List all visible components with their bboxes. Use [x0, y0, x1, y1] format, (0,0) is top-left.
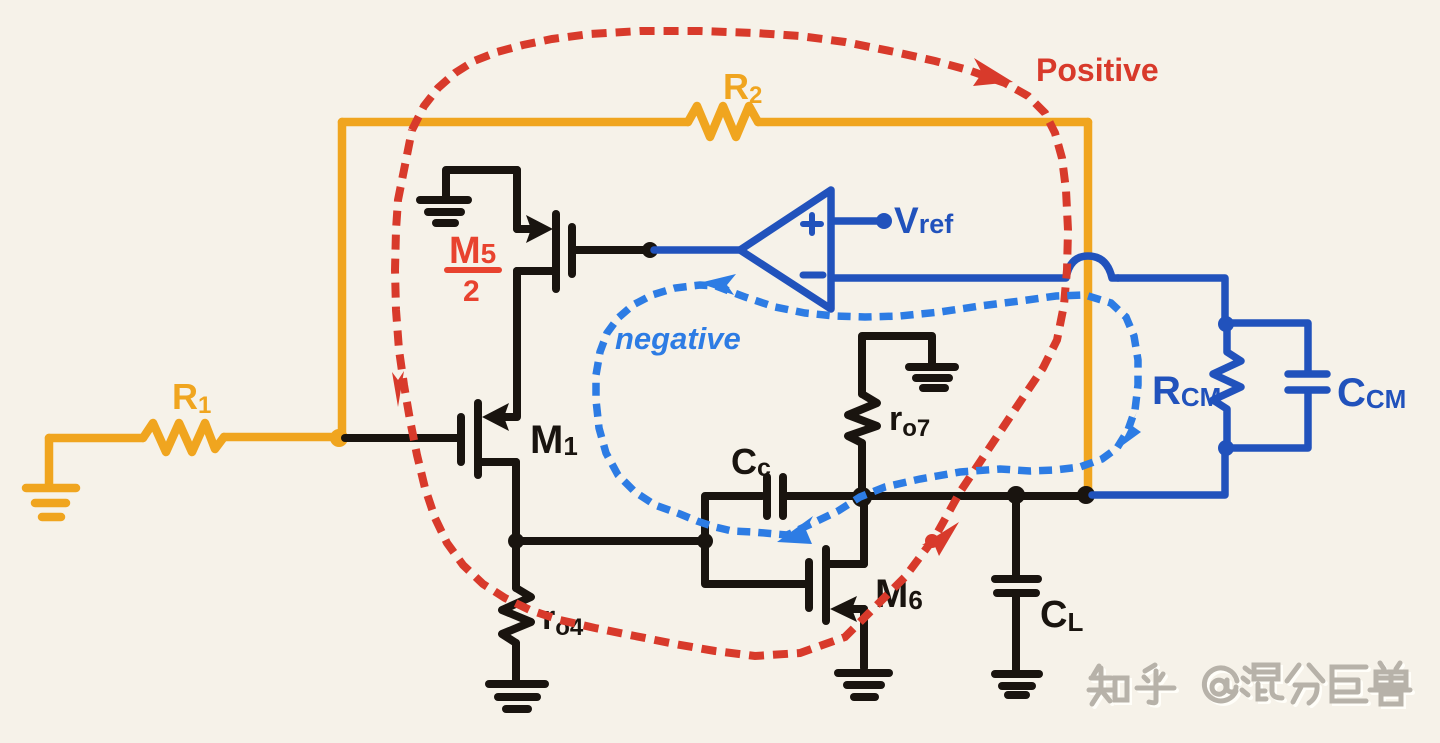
Ccm bottom plate — [1288, 386, 1327, 394]
M1 drain arm — [505, 413, 516, 421]
resistor R1 — [143, 423, 224, 452]
M5 channel bar — [552, 214, 560, 289]
ground (input) — [45, 438, 54, 484]
wire r_o4 top — [512, 541, 520, 588]
node Rcm bottom — [1218, 440, 1234, 456]
wire r_o4 bottom — [512, 643, 520, 681]
M5 gate bar — [568, 227, 576, 274]
CL top plate — [995, 575, 1038, 583]
minus sign — [803, 272, 823, 279]
op-amp U1 triangle — [740, 190, 831, 309]
wire node to right node — [516, 537, 705, 545]
ground r_o4 — [489, 680, 545, 688]
M1 arrow — [482, 403, 509, 431]
M6 drain arm — [826, 560, 864, 568]
node input — [330, 429, 348, 447]
positive loop — [395, 31, 1068, 656]
wire M6 drain up — [860, 496, 868, 564]
M5 source arm — [517, 225, 532, 233]
red arrow M6 — [922, 522, 959, 556]
wire top left — [342, 118, 688, 127]
watermark 知乎 @混分巨兽 (vector strokes, no CJK font dependency) — [1089, 663, 1413, 707]
wire op-amp output — [654, 246, 740, 254]
M1 gate bar — [457, 417, 465, 462]
M5 arrow — [526, 215, 553, 243]
M6 gate bar — [805, 562, 813, 608]
blue arrow op-amp — [699, 274, 736, 295]
wire M5 drain to M1 drain — [513, 271, 521, 417]
M6 channel bar — [822, 549, 830, 621]
CL bottom plate — [997, 589, 1036, 597]
ground M6 — [838, 669, 889, 677]
resistor Rcm — [1213, 325, 1241, 446]
node M1 source — [508, 533, 524, 549]
negative loop — [596, 285, 1138, 535]
wire input to R1 — [49, 434, 143, 443]
Ccm bottom wire — [1225, 392, 1308, 448]
plus sign — [803, 215, 821, 233]
r_o7 wire top — [862, 336, 932, 394]
vertical branch wire (Cc / M6 gate) — [705, 496, 805, 584]
wire r_o7 bottom — [858, 443, 866, 495]
svg-text:2: 2 — [463, 275, 480, 308]
red arrow top — [973, 58, 1013, 86]
wire M6 source down — [860, 609, 868, 668]
wire R1 to node — [224, 433, 336, 442]
wire inverting input with hop — [832, 256, 1118, 278]
Cc right plate — [779, 477, 787, 516]
red arrow left — [392, 371, 404, 407]
wire M5 top — [446, 170, 517, 197]
Vref wire — [832, 217, 878, 225]
svg-text:Positive: Positive — [1036, 52, 1159, 88]
wire Rcm bottom to output node — [1092, 448, 1225, 495]
wire node up — [338, 122, 347, 438]
ground M5 — [420, 196, 468, 204]
wire to Rcm/Ccm branch — [1225, 323, 1308, 372]
M1 gate arm wire from node — [345, 434, 458, 442]
blue arrow right — [1119, 412, 1141, 448]
M5 gate arm wire to op-amp — [575, 246, 646, 254]
M6 arrow — [830, 596, 857, 622]
main output wire — [783, 492, 1086, 500]
wire CL top — [1012, 496, 1020, 575]
Vref dot — [876, 213, 892, 229]
blue arrow Cc — [777, 516, 813, 544]
resistor r_o4 — [502, 588, 531, 643]
node Vout — [1077, 486, 1095, 504]
Ccm top plate — [1288, 370, 1327, 378]
resistor R2 — [688, 106, 758, 137]
ground CL — [995, 670, 1039, 678]
node output at CL — [1007, 486, 1025, 504]
wire top right — [758, 118, 1088, 127]
Cc left plate — [763, 477, 771, 516]
M1 channel bar — [474, 403, 482, 475]
M5 drain arm — [517, 267, 556, 275]
label M5/2 — [444, 230, 502, 308]
wire right down — [1084, 122, 1093, 493]
M1 source arm — [480, 458, 516, 466]
node output at r_o7 — [852, 487, 872, 507]
wire CL bottom — [1012, 593, 1020, 671]
ground r_o7 — [909, 363, 955, 371]
M5 source wire down — [513, 170, 521, 229]
resistor r_o7 — [848, 394, 877, 443]
svg-text:negative: negative — [615, 321, 741, 356]
node Rcm top — [1218, 316, 1234, 332]
M6 source arm — [848, 605, 864, 613]
node M5 gate / op-amp output — [642, 242, 658, 258]
node branch Cc/M6 gate — [697, 533, 713, 549]
wire M1 source down to node — [512, 462, 520, 541]
